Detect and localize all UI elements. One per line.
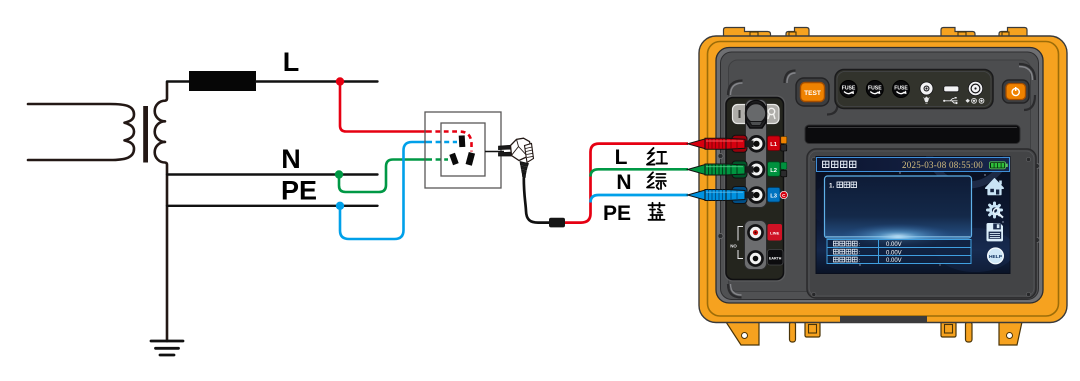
switch label lock (768, 108, 775, 119)
glyph hong (red) (647, 148, 667, 165)
badge L3 (768, 188, 781, 203)
jack mounting plate upper (746, 100, 767, 208)
socket pin N (449, 153, 458, 165)
svg-text:L: L (283, 47, 300, 77)
jack mounting plate lower (745, 221, 767, 270)
svg-text:L2: L2 (770, 168, 777, 174)
rotary knob (746, 103, 766, 123)
top connector panel (835, 70, 993, 109)
switch label I (739, 110, 741, 118)
face inner molding (729, 60, 1031, 292)
fuse holder 1 (840, 81, 857, 98)
node red dot on L (336, 77, 344, 85)
ground (151, 341, 183, 355)
NO bracket (738, 227, 743, 259)
latch tab holes (750, 32, 1009, 39)
label LINE (768, 224, 783, 241)
transformer T1 secondary winding (155, 82, 167, 341)
banana plug blue (688, 190, 754, 201)
svg-text:HELP: HELP (989, 254, 1003, 260)
svg-text:N: N (281, 144, 301, 174)
svg-text:LINE: LINE (770, 231, 779, 236)
cable from plug (524, 178, 549, 223)
glyph lan (blue) (649, 203, 665, 220)
wire red dashed in socket (427, 132, 472, 152)
bottom seam slot (840, 316, 927, 323)
svg-text:N: N (616, 171, 631, 194)
case body (699, 36, 1067, 323)
jack L3 (748, 186, 766, 204)
svg-text:0.00V: 0.00V (886, 258, 902, 264)
wire blue dashed in socket (427, 141, 457, 144)
icon settings gear (988, 203, 1004, 218)
jack L1 (748, 135, 766, 153)
wire socket to plug (485, 151, 504, 153)
plug P1 (499, 138, 534, 177)
svg-text:EARTH: EARTH (769, 257, 782, 261)
svg-text:1.: 1. (829, 183, 835, 190)
usb port (943, 86, 959, 104)
panel glow (840, 224, 956, 250)
svg-text:0.00V: 0.00V (886, 242, 902, 248)
plug cable-entry block (525, 144, 534, 163)
jack L2 (748, 161, 766, 179)
banana plug red (688, 138, 754, 149)
molding corner arcs (728, 64, 1036, 298)
svg-text:0.00V: 0.00V (886, 250, 902, 256)
switch label pill (733, 105, 780, 124)
LCD screen (810, 105, 1015, 274)
bottom hinge tabs (790, 322, 973, 342)
plug cable boot (520, 162, 529, 178)
wire L line (256, 80, 378, 82)
svg-text:FUSE: FUSE (842, 86, 856, 92)
lead blue (591, 195, 689, 203)
banana plug red hilt (732, 135, 747, 152)
TEST button (796, 78, 829, 106)
banana plug blue hilt (732, 187, 747, 204)
socket outer box (425, 112, 501, 188)
fuse holder 2 (866, 81, 883, 98)
svg-text:NO: NO (730, 244, 737, 249)
icon HELP (988, 248, 1004, 264)
feet holes (742, 333, 748, 339)
title glyphs (cha zuo ce shi) (823, 161, 829, 167)
case bottom feet (726, 322, 1022, 345)
badge L1 (768, 136, 781, 151)
wire green from N to socket (339, 160, 427, 193)
title bar (817, 158, 1010, 172)
screen bezel (807, 149, 1036, 298)
node green dot on N (335, 170, 343, 178)
wire PE line (167, 205, 378, 207)
fuse F1 (189, 71, 256, 91)
svg-text:PE: PE (603, 202, 631, 225)
icon save floppy (987, 223, 1004, 241)
top vent strip (805, 125, 1020, 144)
svg-text:L1: L1 (770, 142, 778, 148)
cable red to tester (565, 144, 688, 223)
cable ferrite bead (549, 218, 565, 228)
svg-text:PE: PE (281, 176, 317, 206)
case top latch tabs (724, 28, 1028, 41)
label EARTH (768, 250, 784, 266)
lamp connector (920, 82, 933, 103)
wire green dashed in socket (427, 158, 448, 161)
wire red from L to socket (340, 82, 427, 132)
plug body (511, 138, 532, 160)
banana plug green (688, 164, 754, 175)
rotary knob bezel (746, 101, 766, 129)
wire blue from PE to socket (340, 142, 427, 239)
front rim (716, 48, 1043, 304)
wire N line (167, 173, 378, 175)
lead green (591, 169, 689, 176)
fuse holder 3 (893, 81, 910, 98)
left connector panel (725, 96, 786, 281)
battery icon (990, 162, 1006, 169)
wire L from transformer to fuse (167, 80, 190, 82)
plug prongs (499, 145, 513, 149)
icon home (986, 179, 1003, 195)
glyph lv (green) (647, 172, 666, 189)
jack EARTH (747, 250, 764, 267)
aux round connector (966, 81, 984, 103)
row 3 label: ling di dian ya (833, 257, 857, 262)
node blue dot on PE (336, 202, 344, 210)
badge L2 (768, 162, 781, 177)
transformer T1 core (143, 106, 148, 163)
jack LINE (747, 224, 764, 241)
case seam lines (708, 42, 1059, 317)
banana plug green hilt (732, 161, 747, 178)
bezel screws (812, 157, 1031, 296)
svg-text:2025-03-08 08:55:00: 2025-03-08 08:55:00 (902, 160, 983, 170)
svg-text:FUSE: FUSE (894, 86, 908, 92)
socket pin E (459, 135, 466, 147)
planet arc decoration (810, 105, 1015, 272)
svg-text:FUSE: FUSE (868, 86, 882, 92)
results table (827, 240, 971, 264)
front face (721, 52, 1039, 300)
row 1 label: ling huo dian ya (833, 241, 857, 246)
case screws (718, 153, 1040, 242)
transformer T1 primary winding (28, 104, 134, 160)
socket inner box (441, 123, 485, 176)
row 2 label: huo di dian ya (833, 249, 857, 254)
main panel (825, 176, 972, 238)
svg-text:L3: L3 (770, 194, 778, 200)
svg-text:L: L (615, 146, 628, 169)
svg-text:TEST: TEST (804, 90, 821, 97)
socket pin L (466, 152, 476, 166)
power button (1003, 80, 1030, 103)
